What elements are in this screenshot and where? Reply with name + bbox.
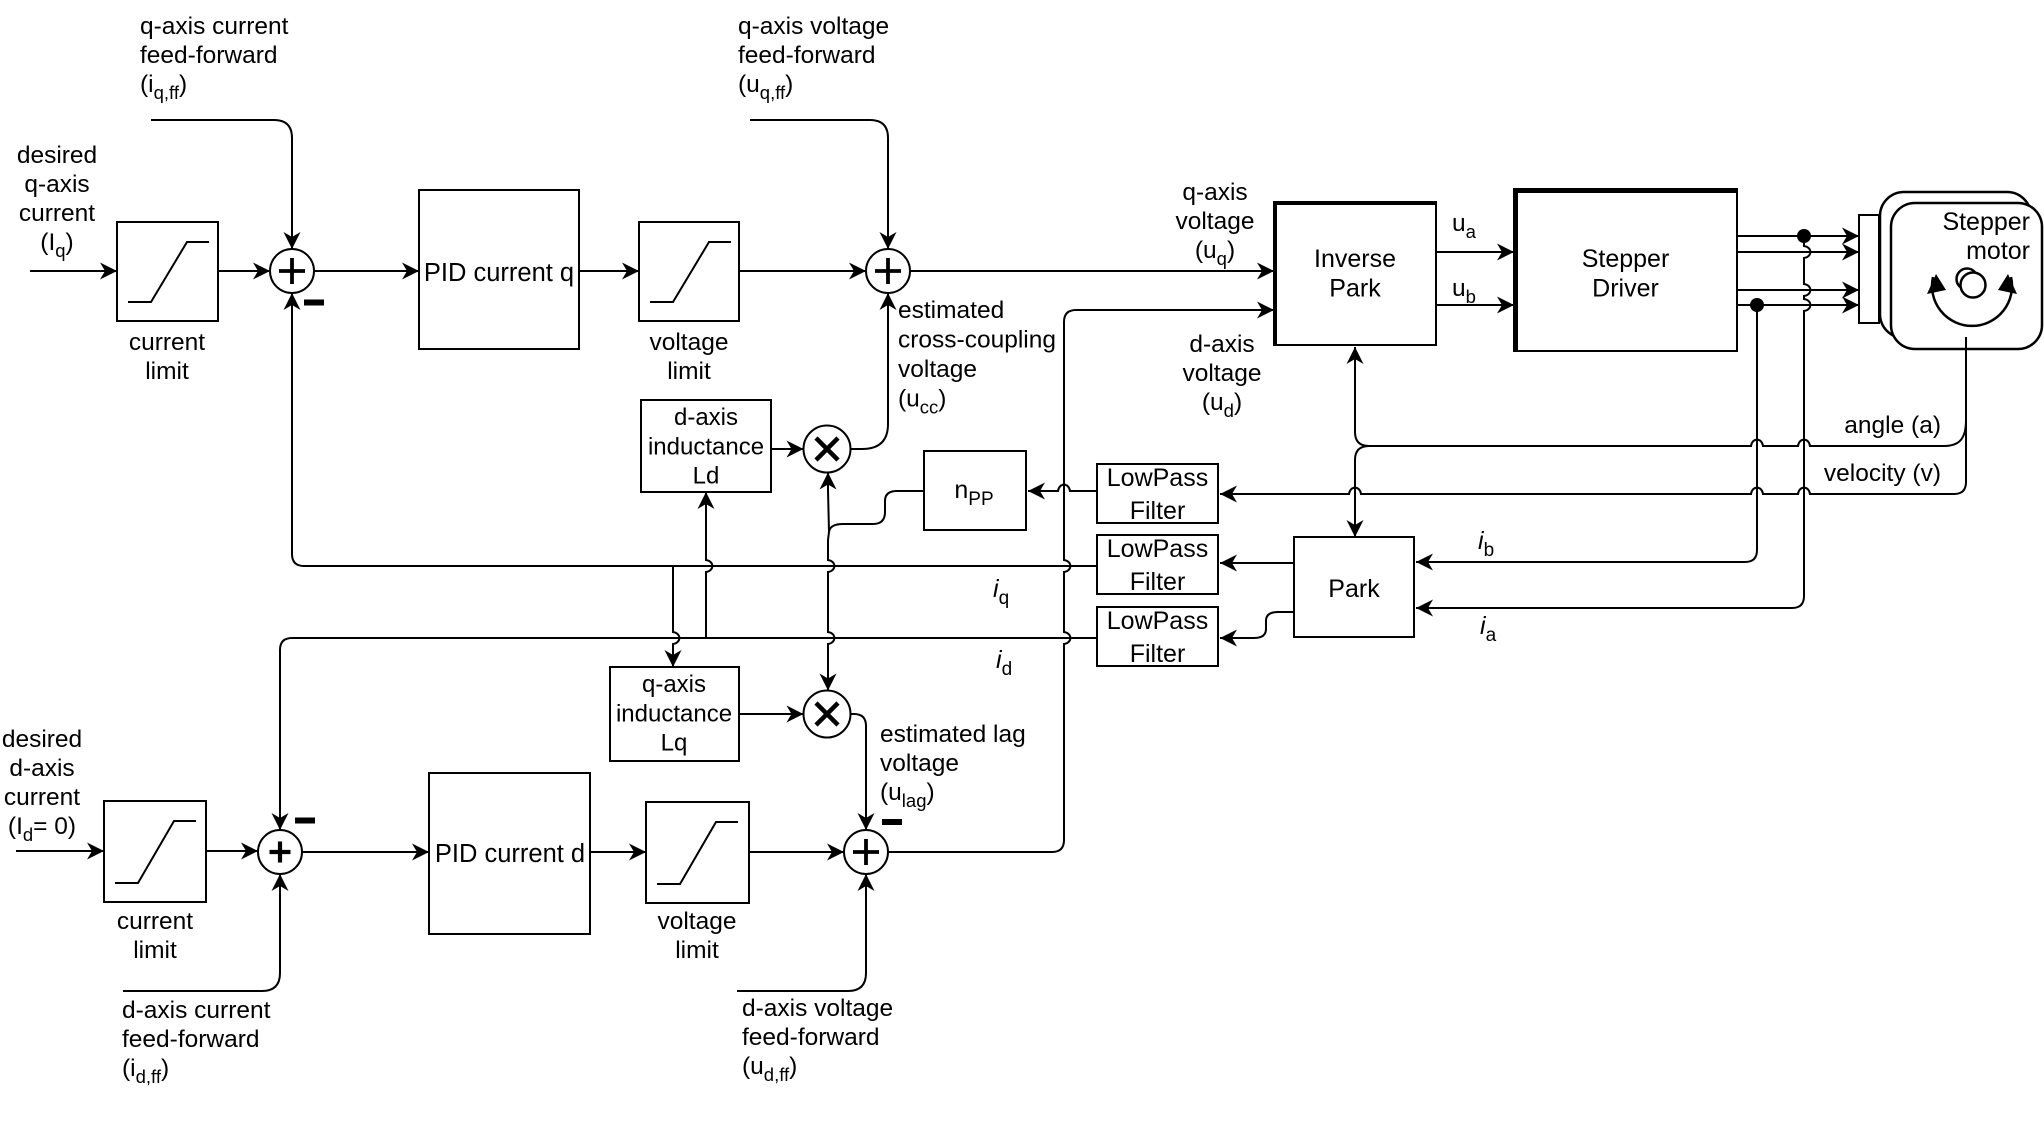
stepper motor body: [1880, 192, 2042, 349]
wire angle (a) from motor: [1355, 347, 1966, 446]
wire ub Inverse Park to Stepper Driver: [1436, 304, 1514, 306]
multiplier X1 (cross-coupling): [804, 426, 851, 473]
wire Sd to PID current d: [302, 851, 429, 853]
svg-text:voltage: voltage: [898, 356, 977, 383]
svg-text:Stepper: Stepper: [1942, 208, 2030, 236]
svg-text:Inverse: Inverse: [1314, 245, 1396, 273]
label ub: [1452, 275, 1476, 307]
svg-text:velocity (v): velocity (v): [1824, 460, 1941, 487]
summing junction S3 (d-axis voltage): [844, 830, 888, 874]
wire id tap into Ld: [706, 492, 712, 638]
wire voltage limit to S3: [749, 851, 844, 853]
wire S1 to PID current q: [314, 270, 419, 272]
svg-text:Lq: Lq: [661, 730, 688, 757]
svg-text:desired: desired: [17, 142, 97, 169]
wire ib current sense to Park: [1416, 305, 1757, 562]
svg-text:PID current q: PID current q: [424, 259, 574, 287]
svg-text:q-axis: q-axis: [1182, 179, 1247, 206]
wire Ld to multiplier X1: [771, 448, 804, 450]
minus sign at S1 feedback input: [304, 300, 324, 306]
svg-text:Stepper: Stepper: [1582, 245, 1670, 273]
label current limit (d-axis): [117, 908, 193, 964]
label angle (a): [1844, 412, 1941, 439]
wire nPP output omega: [829, 491, 924, 532]
svg-text:q-axis: q-axis: [642, 671, 706, 698]
summing junction Sd (d-axis error): [258, 830, 302, 874]
motor terminal block: [1859, 215, 1879, 323]
svg-text:Park: Park: [1329, 275, 1381, 303]
wire omega down into X2: [828, 532, 834, 691]
svg-text:d-axis voltage: d-axis voltage: [742, 995, 893, 1022]
wire PID current d to voltage limit: [590, 851, 646, 853]
svg-text:limit: limit: [145, 358, 189, 385]
wire id feedback to Sd: [280, 638, 1097, 830]
svg-text:Ld: Ld: [693, 463, 720, 490]
svg-text:voltage: voltage: [657, 908, 736, 935]
minus sign at Sd feedback input: [295, 818, 315, 824]
summing junction S1 (q-axis error): [270, 249, 314, 293]
svg-text:feed-forward: feed-forward: [122, 1026, 260, 1053]
label id: [996, 646, 1012, 680]
label voltage limit (d-axis): [657, 908, 736, 964]
label ia: [1480, 612, 1497, 646]
multiplier X2 (lag voltage): [804, 691, 851, 738]
junction dot phase A sense: [1797, 229, 1811, 243]
block voltage limit (d-axis): [646, 802, 749, 903]
block d-axis inductance Ld: [641, 400, 771, 492]
wire angle into Park: [1355, 446, 1369, 537]
wire current limit to Sd: [206, 850, 258, 852]
block PID current q: [419, 190, 579, 349]
wire ia current sense to Park: [1416, 236, 1810, 608]
svg-text:q-axis voltage: q-axis voltage: [738, 13, 889, 40]
block Inverse Park: [1273, 202, 1436, 345]
svg-text:Filter: Filter: [1130, 497, 1186, 525]
svg-text:estimated: estimated: [898, 297, 1004, 324]
wire motor phase A+: [1737, 235, 1859, 237]
svg-text:d-axis current: d-axis current: [122, 997, 271, 1024]
svg-text:limit: limit: [133, 937, 177, 964]
wire Park id output to LowPass Filter 3: [1220, 612, 1294, 638]
svg-text:current: current: [4, 784, 80, 811]
wire Park iq output to LowPass Filter 2: [1220, 562, 1294, 564]
svg-text:LowPass: LowPass: [1107, 464, 1208, 492]
wire estimated cross-coupling voltage ucc into S2: [851, 293, 889, 449]
wire Lq to multiplier X2: [739, 713, 804, 715]
label voltage limit (q-axis): [649, 329, 728, 385]
svg-text:desired: desired: [2, 726, 82, 753]
wire estimated lag voltage ulag into S3: [851, 714, 867, 830]
label d-axis current feed-forward (id,ff): [122, 997, 271, 1087]
wire uq to Inverse Park: [910, 270, 1274, 272]
wire motor phase B+: [1737, 289, 1859, 291]
svg-text:d-axis: d-axis: [674, 404, 738, 431]
svg-text:q-axis current: q-axis current: [140, 13, 289, 40]
wire uq,ff feed-forward into summing junction S2: [750, 120, 888, 249]
svg-text:PID current d: PID current d: [435, 840, 585, 868]
wire velocity to nPP: [1028, 485, 1097, 491]
block q-axis inductance Lq: [610, 667, 739, 761]
label estimated cross-coupling voltage (ucc): [898, 297, 1056, 418]
wire motor phase B-: [1737, 304, 1859, 306]
wire current limit to S1: [218, 270, 270, 272]
block voltage limit (q-axis): [639, 222, 739, 321]
block PID current d: [429, 773, 590, 934]
block nPP (pole pairs): [924, 451, 1026, 530]
wire velocity (v) from motor to LowPass Filter 1: [1220, 337, 1966, 494]
label q-axis voltage (uq): [1175, 179, 1254, 269]
block LowPass Filter 1: [1097, 464, 1218, 525]
wire motor phase A-: [1737, 251, 1859, 253]
label ib: [1478, 527, 1494, 561]
summing junction S2 (q-axis voltage): [866, 249, 910, 293]
wire desired d-axis current input: [16, 850, 104, 852]
junction dot phase B sense: [1750, 298, 1764, 312]
svg-text:current: current: [129, 329, 205, 356]
label d-axis voltage (ud): [1182, 331, 1261, 421]
label velocity (v): [1824, 460, 1941, 487]
label iq: [993, 575, 1009, 609]
label q-axis current feed-forward (iq,ff): [140, 13, 289, 103]
svg-text:voltage: voltage: [880, 750, 959, 777]
block LowPass Filter 2: [1097, 535, 1218, 596]
wire voltage limit to S2: [739, 270, 866, 272]
svg-text:LowPass: LowPass: [1107, 535, 1208, 563]
svg-text:cross-coupling: cross-coupling: [898, 327, 1056, 354]
wire iq feedback to S1: [292, 293, 1097, 566]
svg-text:voltage: voltage: [1175, 208, 1254, 235]
wire PID current q to voltage limit: [579, 270, 639, 272]
block Park: [1294, 537, 1414, 637]
svg-text:estimated lag: estimated lag: [880, 721, 1026, 748]
svg-text:angle (a): angle (a): [1844, 412, 1941, 439]
wire ud,ff feed-forward into S3: [737, 874, 866, 991]
label d-axis voltage feed-forward (ud,ff): [742, 995, 893, 1085]
wire iq tap into Lq: [673, 566, 679, 667]
wire ud to Inverse Park: [888, 310, 1274, 852]
block LowPass Filter 3: [1097, 607, 1218, 668]
wire desired q-axis current input: [30, 270, 117, 272]
svg-text:Filter: Filter: [1130, 640, 1186, 668]
svg-text:limit: limit: [675, 937, 719, 964]
rotor icon: [1927, 269, 2017, 326]
svg-text:voltage: voltage: [1182, 360, 1261, 387]
block current limit (q-axis): [117, 222, 218, 321]
wire ua Inverse Park to Stepper Driver: [1436, 251, 1514, 253]
wire id,ff feed-forward into Sd: [123, 874, 280, 991]
svg-text:Filter: Filter: [1130, 568, 1186, 596]
svg-text:inductance: inductance: [648, 433, 764, 460]
block Stepper Driver: [1513, 189, 1737, 351]
svg-text:feed-forward: feed-forward: [140, 42, 278, 69]
label desired d-axis current (Id = 0): [2, 726, 82, 845]
label Stepper motor: [1942, 208, 2030, 265]
wire omega up into X1: [828, 473, 829, 533]
svg-text:current: current: [19, 200, 95, 227]
svg-text:feed-forward: feed-forward: [742, 1024, 880, 1051]
block current limit (d-axis): [104, 801, 206, 902]
label estimated lag voltage (ulag): [880, 721, 1026, 811]
svg-text:d-axis: d-axis: [9, 755, 74, 782]
svg-text:d-axis: d-axis: [1189, 331, 1254, 358]
wire angle into Inverse Park: [1354, 347, 1356, 380]
label desired q-axis current (Iq): [17, 142, 97, 261]
svg-text:inductance: inductance: [616, 700, 732, 727]
svg-text:LowPass: LowPass: [1107, 607, 1208, 635]
svg-text:q-axis: q-axis: [24, 171, 89, 198]
svg-text:Driver: Driver: [1592, 275, 1659, 303]
svg-text:motor: motor: [1966, 237, 2030, 265]
label ua: [1452, 210, 1477, 242]
svg-text:feed-forward: feed-forward: [738, 42, 876, 69]
svg-text:limit: limit: [667, 358, 711, 385]
svg-text:voltage: voltage: [649, 329, 728, 356]
svg-text:current: current: [117, 908, 193, 935]
svg-text:Park: Park: [1328, 575, 1380, 603]
label q-axis voltage feed-forward (uq,ff): [738, 13, 889, 103]
minus sign at S3 lag input: [882, 819, 902, 825]
label current limit (q-axis): [129, 329, 205, 385]
wire iq,ff feed-forward into summing junction S1: [151, 120, 292, 249]
